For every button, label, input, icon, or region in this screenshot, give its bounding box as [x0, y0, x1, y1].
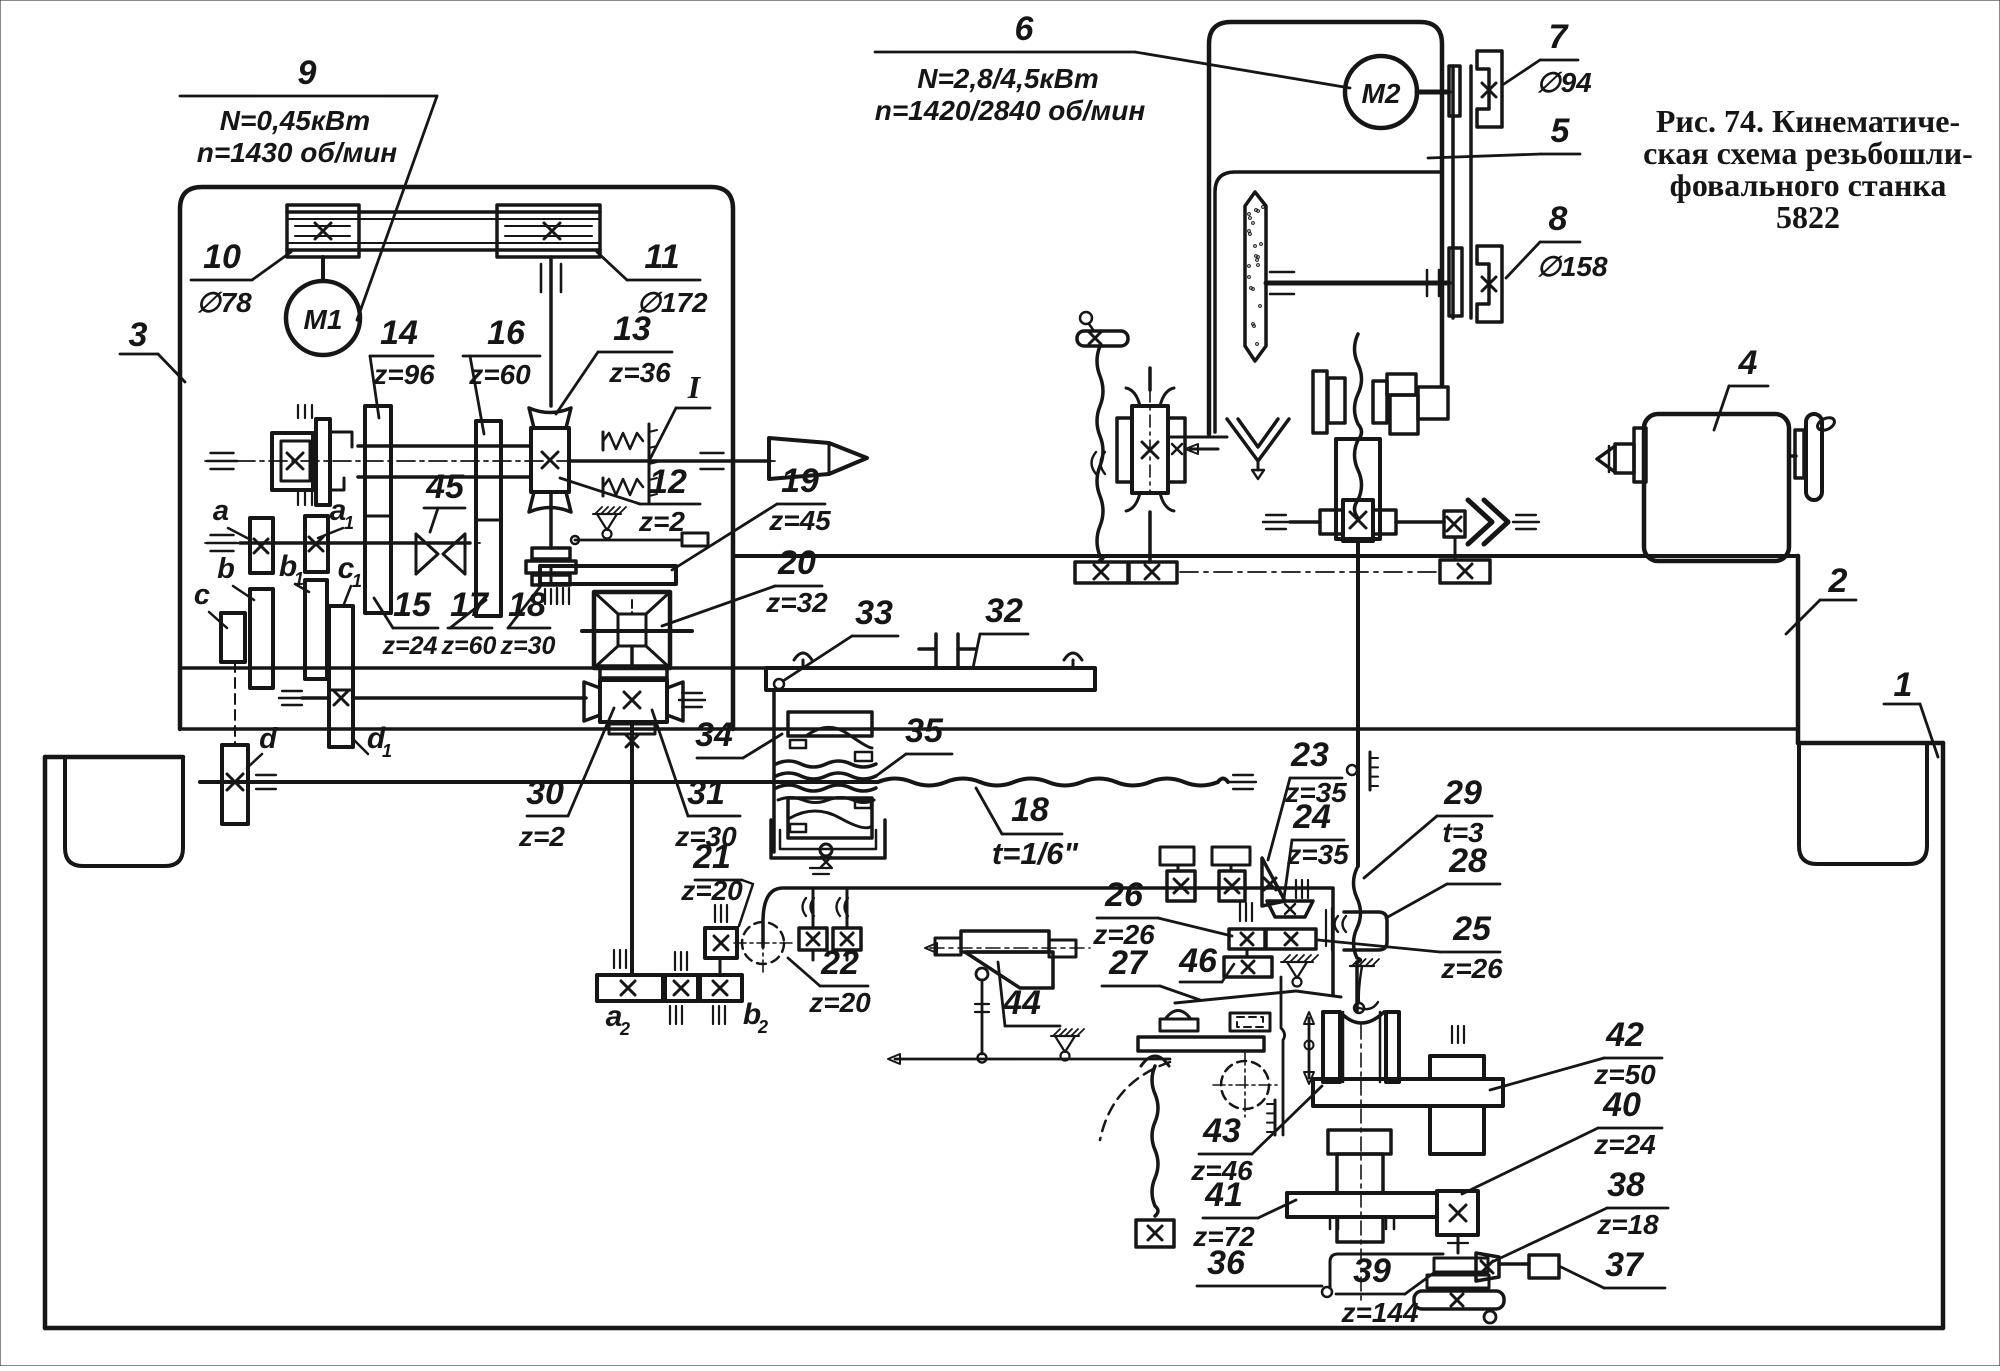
svg-text:35: 35	[905, 712, 944, 750]
svg-text:М2: М2	[1362, 78, 1401, 109]
svg-text:44: 44	[1002, 984, 1041, 1022]
svg-text:25: 25	[1452, 910, 1492, 948]
svg-text:N=2,8/4,5кВт: N=2,8/4,5кВт	[917, 63, 1099, 94]
svg-text:37: 37	[1605, 1246, 1645, 1284]
svg-text:z=20: z=20	[680, 875, 743, 906]
svg-text:1: 1	[352, 571, 362, 591]
svg-text:10: 10	[203, 238, 241, 276]
svg-text:z=60: z=60	[468, 359, 531, 390]
svg-text:d: d	[259, 723, 278, 755]
svg-text:Рис. 74. Кинематиче-: Рис. 74. Кинематиче-	[1656, 103, 1960, 139]
svg-text:5822: 5822	[1776, 199, 1840, 235]
svg-text:43: 43	[1202, 1112, 1241, 1150]
svg-text:7: 7	[1549, 18, 1570, 56]
svg-text:∅94: ∅94	[1536, 67, 1592, 98]
svg-text:33: 33	[855, 594, 893, 632]
svg-text:1: 1	[1894, 666, 1913, 704]
svg-text:n=1430 об/мин: n=1430 об/мин	[197, 137, 398, 168]
svg-text:12: 12	[649, 463, 687, 501]
svg-text:9: 9	[298, 54, 317, 92]
svg-text:16: 16	[487, 314, 526, 352]
svg-text:z=60: z=60	[441, 632, 497, 660]
svg-text:z=45: z=45	[768, 505, 831, 536]
svg-text:28: 28	[1448, 842, 1487, 880]
svg-text:3: 3	[129, 316, 148, 354]
svg-text:z=2: z=2	[518, 821, 565, 852]
svg-text:46: 46	[1178, 942, 1218, 980]
svg-text:c: c	[194, 579, 210, 611]
svg-text:6: 6	[1015, 10, 1035, 48]
svg-text:20: 20	[777, 544, 816, 582]
svg-text:40: 40	[1602, 1086, 1641, 1124]
svg-text:17: 17	[450, 586, 490, 624]
svg-text:2: 2	[1828, 562, 1848, 600]
svg-text:z=72: z=72	[1192, 1221, 1255, 1252]
svg-text:z=18: z=18	[1596, 1209, 1659, 1240]
svg-text:29: 29	[1443, 774, 1482, 812]
svg-text:8: 8	[1549, 200, 1568, 238]
svg-text:z=2: z=2	[638, 506, 685, 537]
svg-text:z=24: z=24	[1593, 1129, 1656, 1160]
svg-text:41: 41	[1204, 1176, 1243, 1214]
svg-text:39: 39	[1353, 1252, 1391, 1290]
svg-text:11: 11	[644, 238, 679, 276]
svg-text:31: 31	[687, 774, 725, 812]
svg-text:М1: М1	[304, 304, 343, 335]
svg-text:t=1/6": t=1/6"	[992, 836, 1080, 871]
svg-text:19: 19	[781, 462, 819, 500]
svg-text:42: 42	[1605, 1016, 1644, 1054]
svg-text:32: 32	[985, 592, 1023, 630]
svg-text:z=20: z=20	[808, 987, 871, 1018]
svg-text:1: 1	[344, 513, 354, 533]
svg-text:b: b	[217, 553, 235, 585]
svg-text:14: 14	[380, 314, 418, 352]
svg-text:a: a	[213, 495, 229, 527]
svg-text:13: 13	[613, 310, 651, 348]
svg-text:27: 27	[1108, 944, 1149, 982]
svg-text:z=24: z=24	[382, 632, 438, 660]
svg-text:34: 34	[695, 716, 733, 754]
svg-text:z=144: z=144	[1340, 1297, 1418, 1328]
svg-text:z=96: z=96	[372, 359, 435, 390]
svg-text:z=30: z=30	[500, 632, 556, 660]
svg-text:n=1420/2840 об/мин: n=1420/2840 об/мин	[875, 95, 1146, 126]
svg-text:45: 45	[425, 468, 465, 506]
svg-text:21: 21	[692, 838, 731, 876]
svg-text:38: 38	[1607, 1166, 1645, 1204]
svg-text:ская схема резьбошли-: ская схема резьбошли-	[1643, 135, 1973, 171]
svg-text:1: 1	[382, 741, 392, 761]
svg-text:фовального станка: фовального станка	[1670, 167, 1947, 203]
svg-text:5: 5	[1551, 112, 1571, 150]
svg-text:I: I	[687, 369, 702, 405]
svg-text:z=36: z=36	[608, 357, 671, 388]
svg-text:2: 2	[757, 1017, 768, 1037]
svg-text:2: 2	[619, 1019, 630, 1039]
svg-text:23: 23	[1290, 736, 1329, 774]
svg-text:∅78: ∅78	[196, 287, 252, 318]
svg-text:z=35: z=35	[1286, 839, 1349, 870]
svg-text:30: 30	[526, 774, 564, 812]
svg-text:24: 24	[1292, 798, 1331, 836]
svg-text:N=0,45кВт: N=0,45кВт	[220, 105, 370, 136]
svg-text:z=26: z=26	[1440, 953, 1503, 984]
svg-text:18: 18	[1011, 791, 1049, 829]
svg-text:15: 15	[393, 586, 432, 624]
svg-text:26: 26	[1104, 876, 1144, 914]
svg-text:4: 4	[1738, 344, 1758, 382]
svg-text:z=32: z=32	[765, 587, 828, 618]
svg-text:∅158: ∅158	[1536, 251, 1608, 282]
